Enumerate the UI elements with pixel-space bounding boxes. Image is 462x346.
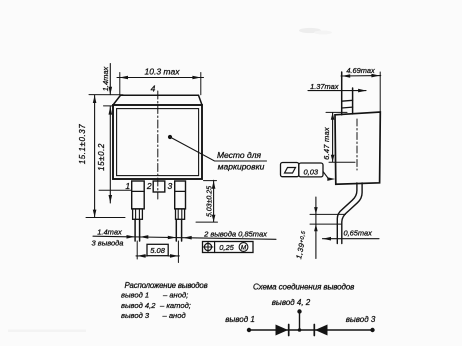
svg-text:3: 3 [168, 181, 173, 191]
svg-text:0,03: 0,03 [303, 167, 318, 176]
svg-text:– анод: – анод [162, 311, 186, 320]
svg-text:вывод 3: вывод 3 [346, 315, 376, 324]
svg-text:Расположение выводов: Расположение выводов [125, 281, 208, 290]
svg-text:вывод 1: вывод 1 [225, 315, 255, 324]
svg-text:M: M [241, 244, 247, 251]
svg-text:5.08: 5.08 [150, 246, 165, 255]
svg-text:0,65max: 0,65max [344, 228, 373, 237]
svg-text:1.4max: 1.4max [101, 66, 110, 91]
svg-text:маркировки: маркировки [218, 162, 265, 172]
svg-text:0,25: 0,25 [219, 243, 234, 252]
svg-text:вывод 4, 2: вывод 4, 2 [272, 298, 311, 307]
svg-text:3 вывода: 3 вывода [92, 238, 124, 247]
svg-text:15.1±0.37: 15.1±0.37 [78, 124, 87, 164]
svg-text:4.69max: 4.69max [346, 66, 375, 75]
svg-text:вывод 4,2: вывод 4,2 [121, 301, 156, 310]
svg-text:1: 1 [125, 181, 130, 191]
svg-text:вывод 3: вывод 3 [121, 311, 150, 320]
svg-text:15±0.2: 15±0.2 [97, 143, 106, 171]
svg-text:2: 2 [146, 181, 152, 191]
svg-text:1.37max: 1.37max [310, 82, 339, 91]
svg-text:6.47 max: 6.47 max [322, 127, 331, 160]
svg-text:Схема соединения выводов: Схема соединения выводов [253, 283, 354, 292]
svg-text:10.3 max: 10.3 max [145, 67, 181, 77]
svg-text:4: 4 [151, 84, 156, 94]
svg-text:2 вывода 0,85max: 2 вывода 0,85max [203, 230, 268, 239]
svg-text:5.03±0.25: 5.03±0.25 [207, 186, 214, 217]
svg-text:1.4max: 1.4max [97, 227, 122, 236]
svg-text:– анод;: – анод; [162, 291, 188, 300]
svg-text:Место для: Место для [217, 150, 262, 160]
svg-text:вывод 1: вывод 1 [121, 291, 149, 300]
svg-text:– катод;: – катод; [159, 301, 191, 310]
